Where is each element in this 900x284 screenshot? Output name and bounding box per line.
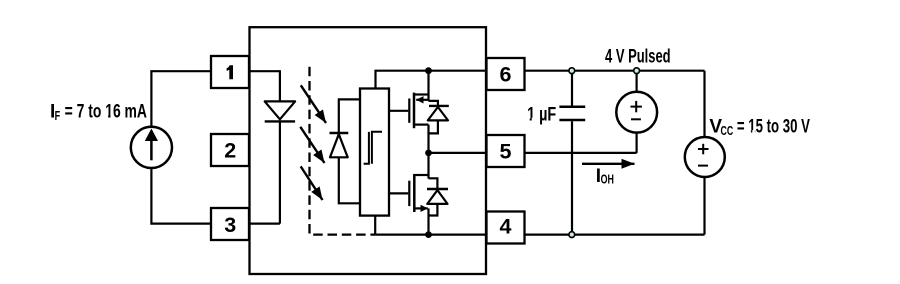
pin 3 <box>211 208 249 240</box>
svg-text:CC: CC <box>721 123 734 138</box>
pin 2 <box>211 134 249 166</box>
NMOS Q2 <box>409 153 428 235</box>
hysteresis symbol <box>364 132 382 164</box>
top rail pin6 to Vcc corner <box>376 70 705 72</box>
svg-text:OH: OH <box>601 172 614 186</box>
LED emitter diode <box>265 101 295 121</box>
pin 5 <box>487 135 525 167</box>
wire pin1 to current source top <box>151 71 280 127</box>
capacitor C1 lead bottom <box>571 121 573 234</box>
body diode D2 <box>427 178 448 215</box>
dashed optical shield <box>310 67 376 235</box>
wire current source bottom to pin3 <box>151 168 280 224</box>
junction bottom rail at Q2 source <box>425 231 432 238</box>
pulsed source V1 <box>616 92 657 133</box>
label IOH <box>596 166 614 187</box>
junction top rail at Q1 drain <box>425 67 432 74</box>
svg-text:1 µF: 1 µF <box>527 105 556 126</box>
label IF = 7 to 16 mA <box>50 101 147 123</box>
gate lead top MOSFET <box>389 110 408 112</box>
pin 4 <box>487 212 525 244</box>
PMOS Q1 <box>409 71 428 153</box>
current source IF <box>131 127 172 168</box>
photodiode <box>330 133 349 157</box>
Vcc rail right <box>703 71 705 235</box>
capacitor C1 lead top <box>571 71 573 106</box>
block bottom lead <box>374 216 376 235</box>
label 1 uF <box>527 105 556 126</box>
light arrow 1 <box>301 85 326 123</box>
pin 6 <box>487 58 525 90</box>
amplifier block U1 <box>360 89 389 216</box>
junction dot top rail at capacitor <box>569 68 575 74</box>
block top lead <box>374 70 376 89</box>
bottom rail pin4 <box>375 234 704 236</box>
photodiode loop wires <box>339 99 360 203</box>
svg-text:2: 2 <box>224 139 236 163</box>
junction dot bottom rail at capacitor <box>569 232 575 238</box>
IOH arrow <box>582 163 635 165</box>
wire pin1 inside to LED anode <box>279 70 281 101</box>
pulsed source V1 bottom lead <box>635 133 637 153</box>
gate lead bottom MOSFET <box>389 192 408 194</box>
label Vcc = 15 to 30 V <box>709 117 810 138</box>
svg-text:= 15 to 30 V: = 15 to 30 V <box>737 117 810 138</box>
label 4 V Pulsed <box>605 46 671 67</box>
svg-text:= 7 to 16 mA: = 7 to 16 mA <box>65 101 148 122</box>
light arrow 2 <box>300 127 324 163</box>
light arrow 3 <box>301 166 323 200</box>
junction mid node <box>425 150 432 157</box>
svg-text:4 V Pulsed: 4 V Pulsed <box>605 46 671 67</box>
junction dot top rail at V1 <box>634 68 640 74</box>
capacitor C1 <box>559 107 585 120</box>
svg-text:4: 4 <box>500 214 512 238</box>
body diode D1 <box>428 101 449 133</box>
pulsed source V1 top lead <box>635 71 637 92</box>
package outline <box>250 27 487 274</box>
pin 1 <box>211 56 249 88</box>
Vcc source V2 <box>685 137 725 177</box>
svg-text:5: 5 <box>500 139 512 163</box>
wire LED cathode to pin3 <box>279 121 281 223</box>
svg-text:6: 6 <box>500 62 512 86</box>
svg-text:3: 3 <box>224 213 236 237</box>
mid rail pin5 <box>429 152 637 154</box>
svg-text:F: F <box>55 109 61 123</box>
